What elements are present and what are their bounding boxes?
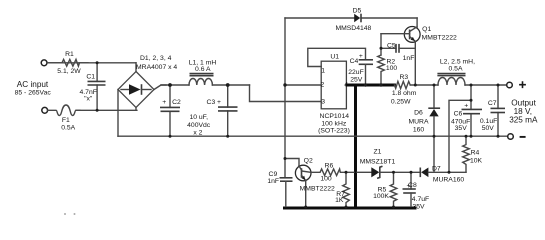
svg-text:160: 160 [413,126,425,133]
svg-text:+: + [359,53,363,60]
svg-text:U1: U1 [330,54,339,61]
thick wire pin4 [347,84,394,87]
svg-text:D6: D6 [414,110,423,117]
svg-text:C6: C6 [454,110,463,117]
svg-text:MURA160: MURA160 [433,176,465,183]
transistor Q2 MMBT2222 [295,158,335,207]
svg-text:R1: R1 [65,51,74,58]
capacitor C3 [207,85,238,136]
svg-text:18 V,: 18 V, [514,107,532,116]
svg-text:1nF: 1nF [267,178,279,185]
svg-text:22uF: 22uF [348,69,364,76]
wire base drop [380,34,382,55]
svg-text:C2: C2 [172,99,181,106]
wire left rail [284,18,286,178]
AC input label [15,80,52,97]
svg-text:1K: 1K [335,197,344,204]
svg-text:4.7uF: 4.7uF [412,196,429,203]
svg-text:+: + [217,99,221,106]
svg-text:100 kHz: 100 kHz [321,120,347,127]
resistor R7 [335,172,349,206]
svg-text:10K: 10K [470,157,483,164]
thick bottom wire [285,207,416,210]
svg-text:50V: 50V [482,125,495,132]
wire R3 to L2 [410,84,438,86]
stray marks [64,213,76,215]
resistor R4 [463,136,483,172]
wire Q1 base [381,33,404,35]
svg-text:NCP1014: NCP1014 [320,113,350,120]
resistor R6 [311,162,354,182]
capacitor C8 [403,172,430,210]
AC input terminal top [41,60,47,66]
wire Q2 collector jog [285,159,299,166]
zener Z1 MMSZ18T1 [357,149,395,179]
svg-text:D7: D7 [432,166,441,173]
svg-text:1: 1 [321,67,325,74]
svg-text:1nF: 1nF [403,55,415,62]
svg-text:R6: R6 [325,162,334,169]
wire L2 to output [465,84,507,86]
diode D5 MMSD4148 [335,7,371,32]
diode D6 MURA160 [408,85,440,172]
wire bottom rail [118,135,508,137]
bridge rectifier D1-D4 MRA4007 [118,55,177,136]
svg-text:MMBT2222: MMBT2222 [422,35,457,42]
wire C6 branch [449,100,471,172]
svg-text:Z1: Z1 [374,149,382,156]
capacitor C4 [348,53,373,85]
svg-text:2: 2 [321,82,325,89]
svg-text:C9: C9 [269,171,278,178]
wire F1 to bridge [76,109,137,111]
svg-text:Q1: Q1 [422,26,431,33]
svg-text:5.1, 2W: 5.1, 2W [57,68,81,75]
capacitor C9 [267,171,292,207]
svg-text:400Vdc: 400Vdc [187,122,211,129]
inductor L2 [437,58,475,85]
diode D7 MURA160 [420,166,466,184]
svg-text:MRA4007 x 4: MRA4007 x 4 [136,64,177,71]
svg-text:0.25W: 0.25W [391,98,411,105]
svg-text:100K: 100K [373,193,389,200]
svg-text:1.8 ohm: 1.8 ohm [392,90,417,97]
svg-text:MMSD4148: MMSD4148 [335,25,371,32]
svg-text:10 uF,: 10 uF, [189,114,208,121]
transistor Q1 MMBT2222 [404,18,457,85]
svg-text:325 mA: 325 mA [509,116,538,125]
svg-text:C8: C8 [408,182,417,189]
wire pin1 feedback loop [308,48,366,66]
svg-text:L2, 2.5 mH,: L2, 2.5 mH, [440,58,475,65]
thick vertical wire [354,85,357,208]
svg-text:D1, 2, 3, 4: D1, 2, 3, 4 [140,55,172,62]
svg-text:+: + [162,99,166,106]
resistor R1 [47,51,88,75]
svg-text:35V: 35V [455,125,468,132]
svg-text:R3: R3 [399,74,408,81]
svg-text:100: 100 [386,65,398,72]
svg-text:35V: 35V [412,203,425,210]
fuse F1 [48,105,80,132]
capacitor C1 [80,63,106,111]
svg-text:C5: C5 [387,42,396,49]
resistor R2 [378,55,398,85]
capacitor C6 [451,85,482,136]
output labels [509,98,538,124]
svg-text:R4: R4 [471,149,480,156]
svg-text:F1: F1 [62,117,70,124]
output terminal plus [507,81,526,88]
svg-text:100: 100 [320,176,332,183]
svg-text:(SOT-223): (SOT-223) [318,127,350,134]
svg-text:AC input: AC input [17,80,49,89]
svg-text:85 - 265Vac: 85 - 265Vac [15,90,52,97]
svg-text:Q2: Q2 [304,158,313,165]
svg-text:C7: C7 [488,100,497,107]
resistor R3 [391,74,417,105]
capacitor C7 [480,85,505,136]
svg-text:0.5A: 0.5A [61,125,75,132]
wire D5 top [285,17,417,19]
svg-text:+: + [464,102,468,109]
svg-text:3: 3 [321,98,325,105]
wire Z1 to D7 [394,171,421,173]
svg-text:C4: C4 [350,58,359,65]
svg-text:0.5A: 0.5A [449,66,463,73]
wire pin3 jog [250,85,322,102]
svg-text:MURA: MURA [408,119,428,126]
svg-text:"x": "x" [84,96,93,103]
svg-text:C3: C3 [207,99,216,106]
wire main bus after bridge [161,84,189,86]
inductor L1 [189,59,217,85]
capacitor C5 [381,42,415,62]
svg-text:MMBT2222: MMBT2222 [300,186,335,193]
AC input terminal bottom [42,107,48,113]
wire top rail [47,62,136,64]
svg-text:MMSZ18T1: MMSZ18T1 [360,159,396,166]
wire pin2 [285,84,321,86]
capacitor C2 [160,85,211,136]
wire L1 to pin3 jog [212,84,249,86]
resistor R5 [373,172,397,206]
output terminal minus [508,134,526,140]
svg-text:25V: 25V [350,77,363,84]
svg-text:x 2: x 2 [193,129,202,136]
svg-text:0.6 A: 0.6 A [195,66,211,73]
svg-text:C1: C1 [86,73,95,80]
svg-text:D5: D5 [353,7,362,14]
IC U1 NCP1014 [318,54,350,135]
